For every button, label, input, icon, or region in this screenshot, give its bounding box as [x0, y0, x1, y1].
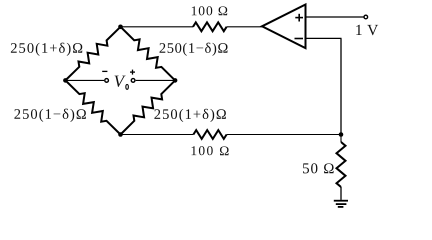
svg-text:250(1+δ)Ω: 250(1+δ)Ω — [10, 41, 84, 57]
svg-text:50 Ω: 50 Ω — [302, 161, 335, 177]
svg-text:250(1−δ)Ω: 250(1−δ)Ω — [159, 41, 229, 57]
svg-text:250(1−δ)Ω: 250(1−δ)Ω — [14, 107, 88, 123]
svg-text:100 Ω: 100 Ω — [191, 3, 229, 18]
svg-text:100 Ω: 100 Ω — [190, 143, 230, 158]
svg-text:250(1+δ)Ω: 250(1+δ)Ω — [154, 107, 228, 123]
svg-text:1 V: 1 V — [355, 22, 379, 39]
